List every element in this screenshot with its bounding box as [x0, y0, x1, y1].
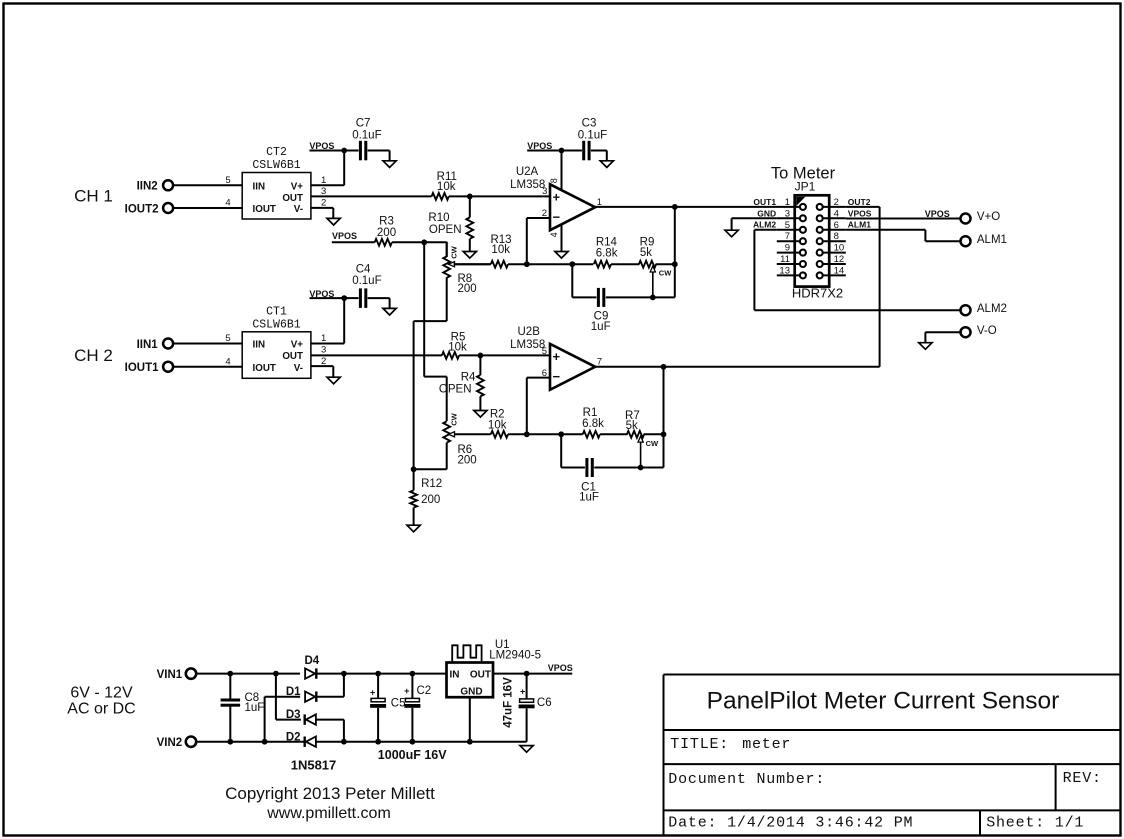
svg-text:CT1: CT1 [266, 306, 287, 319]
svg-text:C6: C6 [537, 697, 552, 709]
svg-text:0.1uF: 0.1uF [578, 130, 607, 142]
svg-text:VIN2: VIN2 [157, 737, 183, 749]
svg-text:R4: R4 [461, 372, 476, 384]
svg-text:VPOS: VPOS [548, 663, 573, 673]
svg-text:6.8k: 6.8k [582, 418, 604, 430]
svg-text:D2: D2 [286, 731, 301, 743]
svg-text:200: 200 [458, 455, 477, 467]
svg-text:CH 2: CH 2 [74, 346, 113, 365]
svg-text:2: 2 [834, 197, 839, 208]
svg-text:REV:: REV: [1063, 770, 1102, 787]
svg-text:3: 3 [542, 186, 547, 197]
svg-text:IOUT: IOUT [253, 363, 276, 374]
svg-text:3: 3 [321, 344, 326, 355]
svg-text:C5: C5 [391, 697, 406, 709]
svg-text:IIN: IIN [253, 340, 266, 351]
svg-text:5: 5 [225, 333, 230, 344]
svg-text:C2: C2 [417, 685, 432, 697]
svg-text:PanelPilot Meter Current Senso: PanelPilot Meter Current Sensor [707, 688, 1060, 715]
svg-text:OPEN: OPEN [439, 384, 472, 396]
svg-text:JP1: JP1 [795, 180, 816, 194]
svg-text:+: + [553, 349, 561, 364]
svg-text:U2A: U2A [516, 166, 539, 178]
svg-text:www.pmillett.com: www.pmillett.com [266, 805, 391, 822]
svg-text:1000uF 16V: 1000uF 16V [378, 748, 447, 762]
svg-text:U2B: U2B [518, 326, 541, 338]
svg-text:ALM1: ALM1 [977, 234, 1007, 246]
svg-text:1uF: 1uF [245, 702, 265, 714]
svg-text:Date: 1/4/2014 3:46:42 PM: Date: 1/4/2014 3:46:42 PM [668, 815, 913, 832]
svg-text:TITLE:: TITLE: [670, 736, 729, 753]
svg-text:4: 4 [225, 356, 230, 367]
svg-text:6V - 12V: 6V - 12V [70, 684, 133, 701]
svg-text:GND: GND [460, 686, 482, 697]
svg-text:D3: D3 [286, 709, 301, 721]
svg-text:0.1uF: 0.1uF [352, 275, 381, 287]
svg-text:CT2: CT2 [266, 146, 287, 159]
svg-text:LM358: LM358 [510, 339, 545, 351]
svg-text:+: + [370, 687, 375, 697]
svg-text:+: + [520, 687, 525, 697]
svg-text:GND: GND [757, 208, 776, 218]
svg-text:IOUT: IOUT [253, 204, 276, 215]
svg-text:OUT2: OUT2 [848, 197, 871, 207]
svg-text:IIN: IIN [253, 181, 266, 192]
svg-text:D4: D4 [304, 655, 319, 667]
svg-text:Document Number:: Document Number: [668, 771, 825, 788]
svg-text:200: 200 [377, 227, 396, 239]
svg-text:5: 5 [785, 220, 790, 231]
svg-text:LM358: LM358 [510, 179, 545, 191]
svg-text:9: 9 [785, 243, 790, 254]
svg-text:0.1uF: 0.1uF [352, 130, 381, 142]
svg-text:CW: CW [659, 269, 672, 278]
svg-text:IIN1: IIN1 [137, 339, 159, 351]
svg-text:CW: CW [646, 439, 659, 448]
svg-text:OUT: OUT [470, 670, 491, 681]
svg-text:4: 4 [549, 232, 559, 237]
svg-text:LM2940-5: LM2940-5 [489, 650, 541, 662]
svg-text:3: 3 [785, 208, 790, 219]
svg-text:6: 6 [834, 220, 839, 231]
svg-text:CW: CW [450, 245, 459, 258]
svg-text:IIN2: IIN2 [137, 181, 158, 193]
svg-text:ALM2: ALM2 [753, 220, 776, 230]
svg-text:10k: 10k [488, 419, 507, 431]
svg-text:R12: R12 [421, 478, 442, 490]
svg-text:10k: 10k [448, 341, 467, 353]
svg-text:Sheet: 1/1: Sheet: 1/1 [986, 815, 1084, 832]
svg-text:5: 5 [542, 346, 547, 357]
svg-text:+: + [404, 686, 409, 696]
svg-text:C4: C4 [356, 263, 371, 275]
svg-text:8: 8 [834, 231, 839, 242]
svg-text:C7: C7 [356, 118, 371, 130]
svg-text:C3: C3 [582, 118, 597, 130]
svg-text:IOUT1: IOUT1 [125, 362, 159, 374]
svg-text:VPOS: VPOS [925, 209, 950, 219]
svg-text:6.8k: 6.8k [596, 247, 618, 259]
svg-text:+: + [553, 190, 561, 205]
svg-text:CH 1: CH 1 [74, 187, 113, 206]
svg-text:11: 11 [780, 254, 790, 265]
svg-text:OUT: OUT [282, 351, 303, 362]
svg-text:Copyright 2013 Peter Millett: Copyright 2013 Peter Millett [225, 784, 435, 803]
svg-text:CW: CW [450, 412, 459, 425]
svg-text:200: 200 [421, 494, 440, 506]
svg-text:1N5817: 1N5817 [291, 758, 337, 773]
svg-text:IOUT2: IOUT2 [125, 203, 159, 215]
svg-text:V-O: V-O [977, 325, 997, 337]
svg-text:V+O: V+O [977, 211, 1000, 223]
svg-text:VPOS: VPOS [332, 231, 357, 241]
svg-text:ALM1: ALM1 [848, 220, 871, 230]
svg-text:OUT: OUT [282, 193, 303, 204]
svg-text:1: 1 [785, 197, 790, 208]
svg-text:V-: V- [294, 204, 303, 215]
svg-text:4: 4 [834, 208, 839, 219]
svg-text:4: 4 [225, 198, 230, 209]
svg-text:OPEN: OPEN [429, 224, 462, 236]
svg-text:D1: D1 [286, 686, 301, 698]
svg-text:IN: IN [450, 670, 460, 681]
svg-text:ALM2: ALM2 [977, 303, 1007, 315]
svg-text:14: 14 [834, 265, 845, 276]
svg-text:10k: 10k [491, 244, 510, 256]
svg-text:R10: R10 [428, 212, 449, 224]
svg-text:CSLW6B1: CSLW6B1 [252, 319, 300, 332]
svg-text:10k: 10k [437, 181, 456, 193]
svg-text:12: 12 [834, 254, 845, 265]
svg-text:7: 7 [785, 231, 790, 242]
svg-text:1uF: 1uF [579, 491, 599, 503]
svg-text:OUT1: OUT1 [753, 197, 776, 207]
svg-text:5k: 5k [626, 420, 638, 432]
svg-text:V+: V+ [291, 340, 304, 351]
svg-text:1uF: 1uF [591, 321, 611, 333]
svg-text:−: − [553, 369, 561, 384]
svg-text:−: − [553, 210, 561, 225]
svg-text:5: 5 [225, 175, 230, 186]
svg-text:HDR7X2: HDR7X2 [792, 286, 843, 301]
svg-text:AC or DC: AC or DC [67, 701, 135, 718]
svg-text:meter: meter [742, 736, 791, 753]
svg-text:V+: V+ [291, 181, 304, 192]
svg-text:5k: 5k [640, 247, 652, 259]
svg-text:V-: V- [294, 363, 303, 374]
svg-text:CSLW6B1: CSLW6B1 [252, 159, 300, 172]
svg-text:8: 8 [549, 178, 559, 183]
svg-text:VPOS: VPOS [848, 208, 872, 218]
svg-text:VIN1: VIN1 [157, 669, 183, 681]
svg-text:47uF 16V: 47uF 16V [503, 677, 515, 728]
svg-text:10: 10 [834, 243, 845, 254]
svg-text:13: 13 [779, 265, 790, 276]
svg-text:200: 200 [458, 283, 477, 295]
